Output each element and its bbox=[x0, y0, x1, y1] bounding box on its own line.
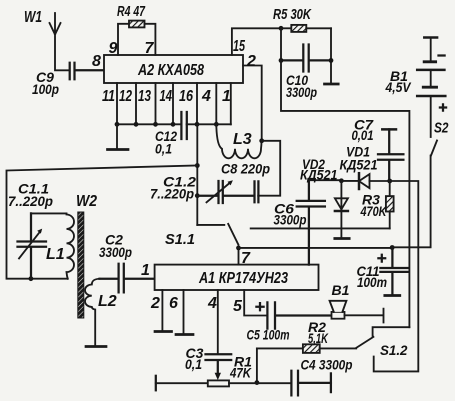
pin 7 lead A1 bbox=[238, 248, 240, 265]
svg-text:L2: L2 bbox=[98, 293, 117, 310]
svg-text:S1.1: S1.1 bbox=[165, 231, 195, 248]
svg-text:C8 220p: C8 220p bbox=[221, 161, 270, 177]
wire node A to input frame (slanted) bbox=[7, 166, 198, 279]
ground under pin 11 bbox=[116, 124, 118, 149]
label C7 0,01 bbox=[352, 117, 375, 144]
svg-text:8: 8 bbox=[92, 53, 101, 70]
A1 pin 2 lead + ground bbox=[161, 290, 163, 331]
label R1 47K bbox=[229, 354, 252, 381]
variable capacitor C1.1 bbox=[18, 213, 47, 278]
wire R5 right down to ground bbox=[330, 28, 332, 83]
wire L3 right to corner down to C8 bbox=[258, 141, 280, 196]
pins 11,12,13,14,16,4,1 leads bbox=[117, 83, 231, 124]
pin 7 wire bbox=[145, 24, 156, 55]
resistor R2 bbox=[257, 344, 356, 353]
svg-text:13: 13 bbox=[138, 88, 151, 105]
label plus C5 bbox=[256, 303, 263, 310]
ground bbox=[325, 83, 339, 86]
svg-text:W2: W2 bbox=[76, 193, 97, 210]
diode VD1 bbox=[341, 173, 389, 189]
svg-text:7: 7 bbox=[145, 40, 155, 57]
node dot L3 right bbox=[259, 138, 264, 143]
antenna W1 bbox=[50, 13, 70, 70]
pin 15 wire bbox=[232, 28, 281, 55]
svg-text:L3: L3 bbox=[233, 131, 252, 148]
capacitor C3 bbox=[206, 354, 232, 374]
variable capacitor C1.2 bbox=[197, 180, 254, 203]
svg-text:5,1K: 5,1K bbox=[308, 330, 329, 346]
capacitor C11 bbox=[380, 248, 407, 296]
svg-text:470K: 470K bbox=[360, 203, 387, 219]
label plus C11 bbox=[378, 255, 385, 262]
label C3 0,1 bbox=[185, 345, 204, 372]
label C10 3300p bbox=[286, 72, 317, 100]
svg-text:7: 7 bbox=[241, 250, 251, 267]
wire VD1 line right end, vertical #2 down to S1.2 bracket bbox=[374, 181, 419, 371]
battery B1 bbox=[417, 38, 445, 138]
svg-text:7..220p: 7..220p bbox=[150, 186, 194, 202]
label C1.1 7..220p bbox=[8, 181, 53, 210]
capacitor C8 bbox=[255, 181, 259, 202]
capacitor C12 bbox=[181, 112, 186, 139]
svg-text:0,1: 0,1 bbox=[185, 356, 202, 372]
inductor L2 bbox=[85, 279, 100, 346]
svg-text:6: 6 bbox=[169, 295, 178, 312]
svg-text:1: 1 bbox=[222, 88, 231, 105]
capacitor C10 bbox=[281, 45, 331, 72]
svg-text:0,1: 0,1 bbox=[155, 141, 172, 157]
inductor L1 bbox=[67, 215, 75, 279]
node dots on bus bbox=[115, 122, 219, 127]
wire bottom left with terminal bbox=[155, 376, 157, 391]
inductor L3 bbox=[216, 124, 261, 158]
svg-text:R5 30K: R5 30K bbox=[273, 6, 312, 23]
node dot C11 top bbox=[390, 245, 395, 250]
svg-text:100p: 100p bbox=[32, 81, 59, 97]
svg-text:16: 16 bbox=[179, 88, 193, 105]
potentiometer R1 bbox=[208, 380, 229, 386]
node dot C1.2 bbox=[195, 193, 200, 198]
wire drop from pin16 dot through node A bbox=[196, 124, 198, 225]
svg-text:S1.2: S1.2 bbox=[380, 342, 408, 358]
svg-text:КД521: КД521 bbox=[300, 167, 338, 183]
label plus bbox=[440, 104, 446, 110]
capacitor C6 bbox=[297, 180, 325, 264]
transformer W2 core bbox=[78, 212, 84, 318]
svg-text:4: 4 bbox=[207, 295, 217, 312]
capacitor C5 bbox=[267, 302, 330, 328]
svg-text:0,01: 0,01 bbox=[352, 127, 374, 143]
svg-text:3300p: 3300p bbox=[286, 84, 317, 100]
node dot C1.1 bottom bbox=[29, 276, 34, 281]
svg-text:12: 12 bbox=[119, 88, 132, 105]
label R2 5,1K bbox=[308, 319, 329, 346]
label B1 4,5V bbox=[385, 68, 412, 95]
svg-text:S2: S2 bbox=[434, 120, 449, 137]
IC A2 КХА058 bbox=[104, 55, 243, 83]
svg-text:C4 3300p: C4 3300p bbox=[301, 357, 353, 373]
svg-text:А1 КР174УН23: А1 КР174УН23 bbox=[198, 270, 288, 287]
wire S1.1 second contact long line to R3 bottom bbox=[251, 227, 390, 229]
A1 pin 4 lead bbox=[217, 290, 219, 354]
svg-text:1: 1 bbox=[141, 262, 150, 279]
resistor R4 bbox=[129, 21, 145, 28]
svg-text:11: 11 bbox=[102, 88, 115, 105]
svg-text:4: 4 bbox=[201, 88, 211, 105]
wire R2 corner down to bottom node bbox=[256, 348, 258, 382]
svg-text:7..220p: 7..220p bbox=[8, 193, 53, 209]
switch S1.1 bbox=[197, 224, 238, 245]
wire S1.1 common to right (pin7 / C11 / S2) bbox=[239, 247, 393, 249]
label C9 100p bbox=[32, 69, 59, 97]
svg-text:R4 47: R4 47 bbox=[117, 3, 145, 20]
diode VD2 bbox=[335, 181, 349, 239]
wire C6 top to VD2 bbox=[309, 179, 342, 181]
svg-text:2: 2 bbox=[246, 53, 256, 70]
wire C1.1 top to L1 top bbox=[31, 212, 67, 214]
capacitor C2 bbox=[100, 264, 155, 293]
pin 2 wire of A2 bbox=[243, 66, 262, 141]
label C12 0,1 bbox=[155, 128, 177, 157]
svg-text:47K: 47K bbox=[229, 365, 252, 381]
switch S1.2 bbox=[356, 327, 409, 348]
svg-text:9: 9 bbox=[109, 40, 118, 57]
svg-text:3300p: 3300p bbox=[99, 244, 132, 260]
node dot supply top bbox=[279, 26, 284, 31]
resistor R3 bbox=[386, 181, 394, 228]
svg-text:W1: W1 bbox=[24, 9, 42, 26]
capacitor C9 bbox=[70, 63, 104, 80]
node dot pin7 bbox=[236, 246, 241, 251]
label C2 3300p bbox=[99, 232, 132, 261]
node dot C10 left bbox=[279, 58, 284, 63]
svg-text:А2 КХА058: А2 КХА058 bbox=[137, 62, 204, 79]
ground L2 bbox=[86, 345, 106, 348]
A1 pin 6 lead + ground bbox=[183, 290, 185, 334]
node dot C7/R3 bbox=[387, 179, 392, 184]
labels 11 12 13 14 16 4 1 bbox=[102, 88, 231, 105]
svg-text:3300p: 3300p bbox=[274, 212, 307, 228]
svg-text:14: 14 bbox=[160, 88, 173, 105]
speaker B1 bbox=[330, 301, 384, 323]
svg-text:КД521: КД521 bbox=[340, 157, 378, 173]
svg-text:5: 5 bbox=[233, 298, 243, 315]
capacitor C7 bbox=[378, 129, 403, 181]
svg-text:2: 2 bbox=[150, 295, 160, 312]
label C11 100m bbox=[357, 263, 388, 290]
wire S2 down to C11 node bbox=[392, 156, 430, 248]
IC A1 КР174УН23 bbox=[155, 265, 319, 290]
label R3 470K bbox=[360, 192, 387, 220]
label VD2 KD521 bbox=[300, 156, 338, 183]
label minus bbox=[439, 54, 445, 56]
node dot VD2 top bbox=[339, 178, 344, 183]
svg-text:100m: 100m bbox=[357, 274, 387, 290]
A1 pin 5 wire bbox=[244, 290, 267, 316]
label C1.2 7..220p bbox=[150, 174, 196, 202]
svg-text:4,5V: 4,5V bbox=[385, 79, 412, 95]
svg-text:15: 15 bbox=[233, 38, 246, 55]
wire bottom bus bbox=[117, 123, 231, 125]
svg-text:C5 100m: C5 100m bbox=[247, 327, 290, 343]
node dot bottom bbox=[255, 380, 260, 385]
label VD1 KD521 bbox=[340, 144, 378, 173]
capacitor C4 bbox=[291, 371, 331, 396]
svg-text:B1: B1 bbox=[332, 282, 350, 298]
switch S2 blade bbox=[431, 141, 437, 156]
wire supply: down from dot, right, down right side (to S1.2 contact) bbox=[281, 28, 409, 327]
node A dot (to input frame) bbox=[195, 163, 200, 168]
pin 9 wire bbox=[118, 24, 129, 55]
arrow onto R1 bbox=[215, 373, 221, 380]
resistor R5 bbox=[281, 25, 331, 32]
svg-text:L1: L1 bbox=[46, 246, 65, 263]
label C6 3300p bbox=[274, 201, 307, 228]
